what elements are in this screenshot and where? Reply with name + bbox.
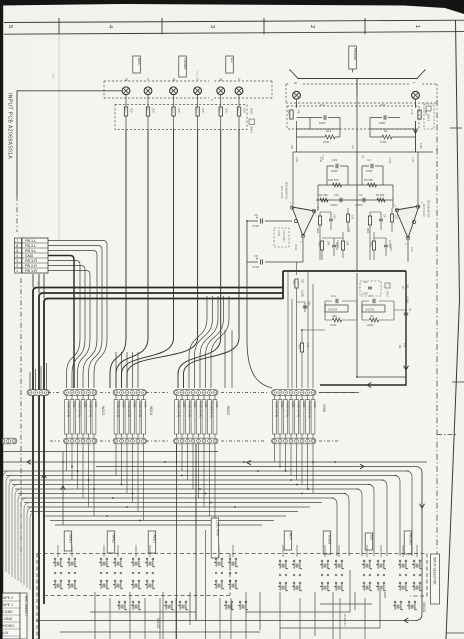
wire to W202 <box>200 296 218 388</box>
svg-text:R13: R13 <box>236 108 240 113</box>
svg-text:MS219AM-T21: MS219AM-T21 <box>427 200 431 218</box>
svg-text:0.01J: 0.01J <box>277 230 280 237</box>
junction <box>71 466 73 468</box>
svg-text:C3a: C3a <box>334 193 339 197</box>
svg-text:J501: J501 <box>195 70 199 77</box>
svg-text:TAPE3: TAPE3 <box>69 533 73 543</box>
capacitor C6a <box>303 306 307 308</box>
routing channel wire <box>21 497 334 499</box>
resistor R10 2.4K <box>415 99 417 108</box>
svg-text:L: L <box>237 79 241 81</box>
svg-text:TAPE 3 R-IN: TAPE 3 R-IN <box>296 402 300 417</box>
note 0.01J F1.D ONLY dashed <box>274 228 289 247</box>
svg-text:GND: GND <box>280 402 284 408</box>
note 2 ONLY <box>249 119 255 125</box>
wire jack drop <box>110 130 126 389</box>
svg-text:MS219AM-T21: MS219AM-T21 <box>285 182 289 200</box>
contact dot <box>377 574 379 576</box>
svg-text:R1: R1 <box>384 129 388 133</box>
wire grid phono input <box>297 118 341 153</box>
PB row PB&#160;1-R pin 1 <box>15 268 22 273</box>
wires under amp <box>297 262 326 388</box>
switch contact SW102 x104 r1 <box>100 558 102 560</box>
svg-text:GND: GND <box>83 402 87 408</box>
junction <box>307 488 309 490</box>
svg-text:TAPE 1 R-IN: TAPE 1 R-IN <box>274 402 278 417</box>
wire conn drop <box>274 444 276 462</box>
wire bottom drop2 <box>364 598 366 639</box>
wire corner left <box>21 498 28 583</box>
svg-text:SW102: SW102 <box>156 618 160 629</box>
resistor R8 220K <box>370 318 379 322</box>
PB row PB&#160;2-L pin 6 <box>15 243 22 248</box>
wire switch feed <box>117 545 119 557</box>
switch contact SW101 x283 r2 <box>279 582 281 584</box>
scan edge left overlay <box>0 0 3 639</box>
svg-text:1-5K: 1-5K <box>411 157 414 163</box>
switch contact SW101 x339 r2 <box>335 582 337 584</box>
wire switch feed <box>338 545 340 557</box>
wire W205 riser <box>35 369 37 389</box>
svg-text:C29: C29 <box>332 158 338 162</box>
contact dot <box>132 572 134 574</box>
switch contact SW101 x297 r2 <box>293 582 295 584</box>
svg-text:L-GND: L-GND <box>1 617 13 621</box>
wire conn drop <box>296 444 298 480</box>
svg-text:GND: GND <box>143 402 147 408</box>
svg-text:0.0033: 0.0033 <box>328 308 338 312</box>
wire bottom drop <box>245 592 247 639</box>
svg-text:R-GND: R-GND <box>1 610 13 614</box>
resistor R36 56K <box>333 183 342 187</box>
junction <box>112 497 114 499</box>
label TAPE1 <box>148 531 156 553</box>
switch contact SW102 x150 r2 <box>146 580 148 582</box>
routing channel wire <box>15 488 359 490</box>
wire corner right <box>368 485 374 557</box>
frame right border <box>446 20 460 639</box>
resistor R13 100 <box>147 94 149 107</box>
wire to W203 <box>89 338 103 388</box>
wire switch feed <box>71 545 73 557</box>
border tick <box>450 127 462 129</box>
switch contact lower x398 <box>394 601 396 603</box>
wire switch feed <box>380 545 382 557</box>
svg-text:57: 57 <box>36 282 40 286</box>
resistor R27 100 <box>391 214 394 222</box>
wire conn drop <box>290 444 292 476</box>
svg-text:C24: C24 <box>333 214 336 219</box>
svg-text:W203: W203 <box>101 406 105 415</box>
connector W202 bottom row <box>174 438 218 444</box>
routing channel wire <box>9 479 384 481</box>
junction <box>334 461 336 463</box>
switch contact SW102 x72 r2 <box>68 580 70 582</box>
resistor R32 33K <box>341 241 344 250</box>
junction <box>290 479 292 481</box>
label CD <box>365 533 373 550</box>
switch contact SW101 x367 r2 <box>363 582 365 584</box>
band tick <box>364 18 366 34</box>
W201 pin label strip <box>273 400 277 435</box>
svg-text:1: 1 <box>414 25 420 28</box>
capacitor C24 <box>329 219 333 221</box>
svg-text:GND: GND <box>25 254 34 258</box>
routing channel wire <box>55 524 262 526</box>
wire switch feed <box>57 545 59 557</box>
plus marks electrolytics <box>256 217 258 219</box>
switch contact lower x412 <box>408 601 410 603</box>
svg-text:1.7B0: 1.7B0 <box>388 157 391 164</box>
border tick <box>446 632 464 634</box>
junction <box>257 470 259 472</box>
wire to W204 <box>121 352 123 388</box>
contact dot <box>279 574 281 576</box>
wire conn drop <box>143 444 145 521</box>
wire conn drop <box>88 444 90 507</box>
svg-text:INPUT SELECTOR: INPUT SELECTOR <box>433 557 437 585</box>
switch contact SW102 x58 r2 <box>54 580 56 582</box>
label TAPE3 <box>64 531 72 551</box>
wire bottom drop <box>162 592 164 639</box>
svg-text:220K: 220K <box>367 323 374 327</box>
resistor R9a 470 <box>300 343 303 352</box>
wire switch feed <box>402 545 404 557</box>
wire conn drop <box>279 444 281 467</box>
svg-text:7: 7 <box>16 239 18 243</box>
scan edge left <box>0 0 3 639</box>
switch contact lower x183 <box>179 601 181 603</box>
switch contact SW101 x325 r1 <box>321 560 323 562</box>
svg-text:R8a: R8a <box>332 314 337 318</box>
routing channel wire <box>6 475 397 477</box>
wire bottom drop2 <box>339 598 341 639</box>
junction <box>106 515 108 517</box>
svg-text:6: 6 <box>16 244 18 248</box>
wire corner right <box>406 471 412 556</box>
wire to W202 <box>189 296 207 388</box>
svg-text:C1: C1 <box>435 147 439 151</box>
capacitor C9 47/25 <box>247 220 292 222</box>
svg-text:TAPE 2 R-IN: TAPE 2 R-IN <box>285 402 289 417</box>
connector W202 top row <box>174 390 218 396</box>
connector label PHONO <box>349 46 357 69</box>
svg-text:3.3/50: 3.3/50 <box>389 244 392 251</box>
wire conn drop <box>209 444 211 516</box>
svg-text:TAPE 2 R-IN: TAPE 2 R-IN <box>127 402 131 417</box>
grid reference band <box>4 20 464 22</box>
amp vertical wires <box>293 152 318 211</box>
up arrows on bus <box>42 474 47 478</box>
svg-text:1/4D: 1/4D <box>419 143 423 149</box>
thick bus horizontal top <box>283 270 406 272</box>
wire switch feed <box>296 545 298 557</box>
resistor R29 430K <box>369 212 371 216</box>
svg-text:GND: GND <box>250 108 254 114</box>
svg-text:GND: GND <box>132 402 136 408</box>
W201 pin label strip <box>300 400 304 435</box>
wire conn drop <box>214 444 216 545</box>
wire bottom drop <box>189 592 191 625</box>
svg-text:PB 2-R: PB 2-R <box>25 264 37 268</box>
svg-text:3: 3 <box>16 259 18 263</box>
net wires around 0.0033 <box>325 301 357 320</box>
svg-text:5.3/98: 5.3/98 <box>406 296 409 303</box>
W204 pin label strip <box>120 400 124 435</box>
routing channel wire <box>24 502 322 504</box>
svg-text:GND: GND <box>182 402 186 408</box>
label PHONO <box>404 531 412 554</box>
resistor R1 270K <box>382 135 392 139</box>
wire conn drop <box>71 444 73 480</box>
wire switch feed <box>232 545 234 557</box>
connector label CD <box>226 56 234 73</box>
bottom horizontals <box>60 631 260 633</box>
wire PB R <box>48 266 85 339</box>
routing channel wire <box>27 506 310 508</box>
switch contact SW101 x403 r2 <box>399 582 401 584</box>
wire to W202 <box>211 296 229 388</box>
wire bottom drop <box>94 592 96 639</box>
contact dot <box>413 574 415 576</box>
junction <box>312 461 314 463</box>
connector W203 top row <box>64 390 97 396</box>
svg-text:GND: GND <box>121 402 125 408</box>
op-amp IC1b <box>396 206 419 238</box>
W201 pin label strip <box>295 400 299 435</box>
svg-text:TUNER: TUNER <box>328 533 332 545</box>
switch contact lower x122 <box>118 601 120 603</box>
svg-text:47/25: 47/25 <box>252 224 259 228</box>
svg-text:5.3/98: 5.3/98 <box>301 290 304 297</box>
junction <box>301 493 303 495</box>
wire corner right <box>343 494 349 557</box>
svg-text:TAPE 1 R-IN: TAPE 1 R-IN <box>66 402 70 417</box>
wire corner left <box>12 485 19 578</box>
thick bus stack to left <box>33 288 283 639</box>
svg-text:SW101: SW101 <box>422 602 426 613</box>
svg-text:4.7K: 4.7K <box>321 155 324 160</box>
svg-text:4: 4 <box>107 25 113 28</box>
svg-text:CD: CD <box>370 535 374 540</box>
capacitor C11 180P <box>310 117 340 119</box>
contact dot <box>100 572 102 574</box>
routing channel wire <box>45 515 286 517</box>
wire bottom drop <box>259 592 261 630</box>
label REC SELECT strip <box>20 593 27 639</box>
junction <box>93 488 95 490</box>
svg-text:2: 2 <box>16 264 18 268</box>
wire W205 riser <box>46 363 48 389</box>
capacitor C28 0.0022 <box>332 245 336 247</box>
svg-text:AUX: AUX <box>289 533 293 541</box>
wire bottom drop2 <box>175 598 177 639</box>
wire conn drop <box>192 444 194 489</box>
junction <box>88 479 90 481</box>
wire corner left <box>18 494 25 582</box>
switch contact SW102 x118 r2 <box>114 580 116 582</box>
junction <box>296 484 298 486</box>
svg-text:TUNER: TUNER <box>183 58 187 70</box>
W202 pin label strip <box>175 400 179 435</box>
contact dot <box>114 572 116 574</box>
svg-text:270K: 270K <box>323 140 330 144</box>
capacitor C7a 0.0033 <box>336 299 338 304</box>
W202 pin label strip <box>197 400 201 435</box>
contact dot <box>146 572 148 574</box>
wire switch feed <box>149 545 151 557</box>
svg-text:R14: R14 <box>287 110 291 115</box>
svg-text:270K: 270K <box>380 140 387 144</box>
svg-text:330: 330 <box>301 279 304 284</box>
svg-text:100A: 100A <box>322 404 326 413</box>
svg-text:R13: R13 <box>145 108 149 113</box>
switch contact lower x136 <box>132 601 134 603</box>
svg-text:TAPE 3 R-IN: TAPE 3 R-IN <box>138 402 142 417</box>
phono input bracket J1 <box>290 70 426 79</box>
junction <box>121 484 123 486</box>
switch contact SW101 x325 r2 <box>321 582 323 584</box>
W202 pin label strip <box>202 400 206 435</box>
svg-text:GND: GND <box>72 402 76 408</box>
PB row GND pin 4 <box>15 253 22 258</box>
W201 pin label strip <box>311 400 315 435</box>
label TUNER <box>323 531 331 554</box>
svg-text:1: 1 <box>16 269 18 273</box>
W203 pin label strip <box>92 400 96 435</box>
connector label AUX <box>133 56 141 73</box>
junction <box>246 220 248 222</box>
routing channel wire <box>50 520 274 522</box>
junction <box>77 470 79 472</box>
svg-text:R: R <box>124 79 128 82</box>
routing channel wire <box>30 511 298 513</box>
wire bottom drop2 <box>109 598 111 639</box>
svg-text:PB 3-L: PB 3-L <box>25 249 36 253</box>
contact dot <box>54 572 56 574</box>
capacitor C6 <box>404 313 408 315</box>
phono dashed enclosure <box>286 84 437 103</box>
W204 pin label strip <box>142 400 146 435</box>
wire to W204 <box>126 352 128 388</box>
wire corner left <box>3 471 10 570</box>
wire conn drop <box>285 444 287 471</box>
svg-text:R23: R23 <box>292 280 295 285</box>
PB row PB&#160;3-L pin 5 <box>15 248 22 253</box>
svg-text:C8: C8 <box>254 254 258 258</box>
wire PB GND thick <box>48 256 74 389</box>
W202 pin label strip <box>180 400 184 435</box>
svg-text:GND: GND <box>215 402 219 408</box>
wire PB R <box>48 261 80 339</box>
wire corner left <box>9 480 16 574</box>
svg-text:470: 470 <box>306 343 309 348</box>
svg-text:C12: C12 <box>363 281 368 284</box>
contact dot <box>215 572 217 574</box>
junction <box>356 376 358 378</box>
wire conn drop <box>115 444 117 476</box>
selector dashed box left <box>36 554 38 639</box>
svg-text:PB 3-R: PB 3-R <box>25 259 37 263</box>
svg-text:4: 4 <box>16 254 18 258</box>
row R4b C3a C3 R4 <box>316 199 393 201</box>
wire conn drop <box>176 444 178 462</box>
board edge dash-dot left <box>16 196 18 232</box>
wire bottom drop <box>332 592 334 639</box>
junction <box>205 493 207 495</box>
wire conn drop <box>198 444 200 498</box>
switch contact SW101 x403 r1 <box>399 560 401 562</box>
wire bottom drop <box>279 592 281 639</box>
contact dot <box>321 574 323 576</box>
svg-text:45-5: 45-5 <box>410 247 413 252</box>
switch contact SW102 x219 r2 <box>215 580 217 582</box>
svg-text:100: 100 <box>201 108 205 113</box>
svg-text:L: L <box>412 82 416 84</box>
rail down right <box>357 273 406 377</box>
W203 pin label strip <box>65 400 69 435</box>
svg-text:R: R <box>219 79 223 82</box>
svg-text:33K: 33K <box>346 241 349 246</box>
svg-text:0.047: 0.047 <box>362 293 369 296</box>
mid vertical dark <box>195 444 197 620</box>
svg-text:100/10: 100/10 <box>330 203 338 207</box>
svg-text:180P: 180P <box>319 121 326 125</box>
svg-text:100: 100 <box>152 108 156 113</box>
switch contact SW102 x118 r1 <box>114 558 116 560</box>
svg-text:L: L <box>195 79 199 81</box>
resistor R12 100 <box>197 94 199 107</box>
wire jack drop <box>178 130 221 389</box>
svg-text:GND: GND <box>313 402 317 408</box>
routing channel wire <box>12 484 371 486</box>
svg-text:C3: C3 <box>359 193 363 197</box>
svg-text:100: 100 <box>243 108 247 113</box>
resistor R8a 220K <box>333 318 342 322</box>
routing channel wire <box>18 493 346 495</box>
capacitor C7 0.0033 <box>373 299 375 304</box>
svg-text:CD: CD <box>230 58 234 63</box>
svg-text:C9: C9 <box>254 213 258 217</box>
wire W201 top right <box>319 392 359 394</box>
W201 pin label strip <box>306 400 310 435</box>
switch contact SW101 x297 r1 <box>293 560 295 562</box>
svg-text:PB 1-L: PB 1-L <box>25 239 36 243</box>
selector dashed box top <box>37 553 427 555</box>
resistor R23 330 <box>295 279 298 288</box>
svg-text:180P: 180P <box>379 121 386 125</box>
W202 pin label strip <box>186 400 190 435</box>
wire switch feed <box>366 545 368 557</box>
wire switch feed <box>282 545 284 557</box>
loop wires <box>327 166 383 185</box>
wire corner left <box>24 503 31 586</box>
svg-text:PHONO R-IN: PHONO R-IN <box>307 402 311 418</box>
wire bottom drop2 <box>219 598 221 639</box>
capacitor C4 <box>379 219 383 221</box>
wire corner left <box>27 507 34 588</box>
svg-text:29Z910: 29Z910 <box>335 242 338 251</box>
svg-text:R13: R13 <box>123 108 127 113</box>
wire switch feed <box>218 545 220 557</box>
connector W201 bottom row <box>272 438 316 444</box>
svg-text:PHONO: PHONO <box>409 533 413 546</box>
svg-text:5: 5 <box>16 249 18 253</box>
svg-text:ONLY: ONLY <box>386 291 389 298</box>
svg-text:100P: 100P <box>331 169 338 173</box>
switch contact SW101 x339 r1 <box>335 560 337 562</box>
wire PB L <box>48 251 97 339</box>
